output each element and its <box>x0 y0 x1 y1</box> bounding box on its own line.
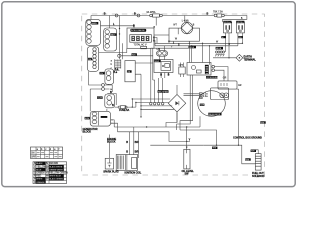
wire terminal column <box>151 48 163 102</box>
wire vertical x123 <box>121 43 123 59</box>
svg-text:W: W <box>222 37 224 39</box>
label B MAIN (inside exw) <box>101 116 108 118</box>
svg-text:B: B <box>126 141 128 144</box>
svg-text:REGULATOR: REGULATOR <box>209 113 221 116</box>
wire rectifier top <box>176 85 178 123</box>
wire top bus <box>91 16 247 23</box>
wire lower ground run <box>180 130 255 164</box>
svg-text:B: B <box>160 74 162 77</box>
label RECTIFIER <box>158 90 169 93</box>
svg-text:ON: ON <box>31 153 35 155</box>
svg-text:6B/LB: 6B/LB <box>216 48 222 50</box>
svg-text:GREEN WHITE: GREEN WHITE <box>49 169 63 171</box>
svg-text:Br: Br <box>46 162 49 165</box>
fuse F2 TBK 7.5A <box>214 14 217 17</box>
svg-text:BATT: BATT <box>111 33 117 36</box>
wire sub bus y25.8 <box>101 26 135 28</box>
wire generator block drops <box>132 99 136 107</box>
wire solenoid top <box>251 150 258 154</box>
oil level switch S2 <box>184 149 190 169</box>
meter INTELLIGAUGE <box>127 28 154 48</box>
wire ignition drops <box>129 127 138 158</box>
svg-text:INTELLIGAUGE: INTELLIGAUGE <box>131 29 146 32</box>
wire FW lead to connector pair <box>89 71 117 111</box>
svg-text:OFF: OFF <box>31 157 36 159</box>
svg-text:BLUE: BLUE <box>36 169 42 171</box>
wire regulator bottom net <box>166 112 200 127</box>
wire colour legend table <box>33 162 68 184</box>
svg-text:CPT: CPT <box>179 65 184 67</box>
spark plug P2 <box>105 158 113 169</box>
svg-text:FW: FW <box>88 59 91 61</box>
svg-text:B: B <box>207 13 209 16</box>
module CO MODULE <box>187 63 211 76</box>
svg-text:B: B <box>134 13 136 16</box>
wire oil switch run <box>114 127 203 149</box>
wire EXW leads <box>107 109 118 132</box>
connector ladder CN1 <box>115 59 121 68</box>
wire J/B outputs <box>135 63 153 96</box>
wire BATT to bus <box>109 16 111 29</box>
node T1 on bus <box>137 14 140 17</box>
svg-text:TBK 7.5A: TBK 7.5A <box>213 11 223 14</box>
field winding FW <box>87 47 98 72</box>
rectifier bridge D1 <box>168 94 186 112</box>
wire mid bus B1 <box>155 42 243 44</box>
page border frame <box>2 2 295 187</box>
wire CO module drops <box>189 43 209 65</box>
svg-text:B: B <box>126 150 128 153</box>
label 6B/LB terminal strip <box>216 47 223 50</box>
svg-text:FUSE 5A: FUSE 5A <box>119 109 129 112</box>
label W/B (solenoid) <box>212 147 217 149</box>
wire MAIN to bus <box>90 16 92 20</box>
svg-text:BLACK: BLACK <box>36 162 43 165</box>
svg-text:SOLENOID: SOLENOID <box>252 175 265 178</box>
winding BATT charge <box>104 28 117 51</box>
fuel cut solenoid SOL <box>255 154 261 170</box>
svg-text:GR: GR <box>238 85 242 87</box>
terminal strip TS1 <box>216 51 218 53</box>
svg-text:ORANGE: ORANGE <box>36 181 45 184</box>
svg-text:MAIN: MAIN <box>92 22 97 25</box>
breaker CB1 <box>157 51 168 57</box>
svg-text:TOTAL AC V: TOTAL AC V <box>134 43 147 46</box>
wire vertical x119.5 <box>119 16 121 60</box>
svg-text:EXW: EXW <box>85 118 90 120</box>
winding EXW excitation <box>90 111 110 126</box>
svg-text:BLOCK: BLOCK <box>107 141 116 144</box>
svg-text:B: B <box>112 104 114 107</box>
wire fuse drop <box>155 17 157 25</box>
winding MAIN (stator) <box>86 19 101 45</box>
svg-text:6A 2P5A: 6A 2P5A <box>147 11 156 14</box>
earth terminal E1 <box>236 54 243 61</box>
wire lamp feed <box>184 16 186 23</box>
svg-text:WT: WT <box>173 25 177 27</box>
svg-text:BLACK WHITE: BLACK WHITE <box>49 165 63 168</box>
wire mid bus B2 <box>155 45 238 47</box>
fuse F1 6A 2P5A <box>150 14 153 17</box>
svg-text:CO MODULE: CO MODULE <box>206 77 218 79</box>
wire regulator pin feeds <box>184 94 200 96</box>
wire lamp drop <box>174 41 190 43</box>
junction block J/B <box>125 61 135 82</box>
svg-text:BLACK GREEN: BLACK GREEN <box>49 178 63 181</box>
wire receptacle drop <box>237 89 239 145</box>
wire gauge left <box>99 48 127 52</box>
svg-text:GFCI(b): GFCI(b) <box>237 22 244 24</box>
wire GFCI drops <box>226 33 243 58</box>
svg-text:SPARK PLUG: SPARK PLUG <box>103 171 119 174</box>
svg-text:BLOCK: BLOCK <box>83 131 92 134</box>
wire CB drops <box>160 46 165 60</box>
winding DCW <box>105 94 115 108</box>
wire spark plug feed <box>108 135 110 159</box>
wire 12V leads <box>109 71 120 86</box>
ignition coil T2 <box>116 155 137 171</box>
svg-text:TERMINAL: TERMINAL <box>244 58 257 61</box>
junction (fuse wire) <box>132 106 133 107</box>
regulator U2 <box>198 91 226 117</box>
svg-text:RECTIFIER: RECTIFIER <box>158 91 169 93</box>
receptacle R120 <box>218 81 237 89</box>
pilot lamp L-4(M) <box>169 28 199 41</box>
svg-text:B: B <box>168 74 170 77</box>
label 6B/LB (bus) <box>189 46 197 49</box>
node T2 on bus <box>115 14 118 17</box>
svg-text:B/R: B/R <box>135 150 139 153</box>
connector pin table <box>31 147 63 159</box>
label W (gfci drop) <box>221 36 226 38</box>
connector plug P1 <box>118 54 121 57</box>
label GR (gfci drop) <box>238 36 243 38</box>
svg-text:GREEN: GREEN <box>36 173 45 175</box>
wire co module to lower net <box>177 75 193 130</box>
fuse F3 5A <box>115 106 136 108</box>
winding 12V sub <box>105 69 114 84</box>
label W/B (upper) <box>260 121 265 123</box>
engine switch ESW <box>154 60 173 73</box>
receptacle GFCI(b) <box>236 22 244 33</box>
svg-text:b 3a: b 3a <box>203 96 208 98</box>
svg-text:CONTROL BOX GROUND: CONTROL BOX GROUND <box>233 137 262 140</box>
connector pair circles <box>102 84 105 87</box>
wire earth line <box>213 57 237 59</box>
wire ESW drops <box>161 73 168 79</box>
receptacle GFCI(a) <box>224 22 232 33</box>
svg-text:ESW: ESW <box>155 61 160 63</box>
svg-text:IGNITION COIL: IGNITION COIL <box>125 171 142 174</box>
connector circles right <box>212 65 215 68</box>
svg-text:DCW: DCW <box>97 98 102 100</box>
svg-text:GFCI(a): GFCI(a) <box>224 22 231 24</box>
wire gauge to lamp box <box>154 34 169 36</box>
svg-text:B/R: B/R <box>135 141 139 144</box>
svg-text:B: B <box>104 13 106 16</box>
svg-text:GR: GR <box>223 78 227 80</box>
wire gen to rectifier <box>132 96 174 117</box>
svg-text:B: B <box>133 25 135 28</box>
control panel dashed boundary <box>82 14 265 175</box>
relay K1 <box>179 67 185 74</box>
wire mid bus B3 <box>151 47 189 49</box>
